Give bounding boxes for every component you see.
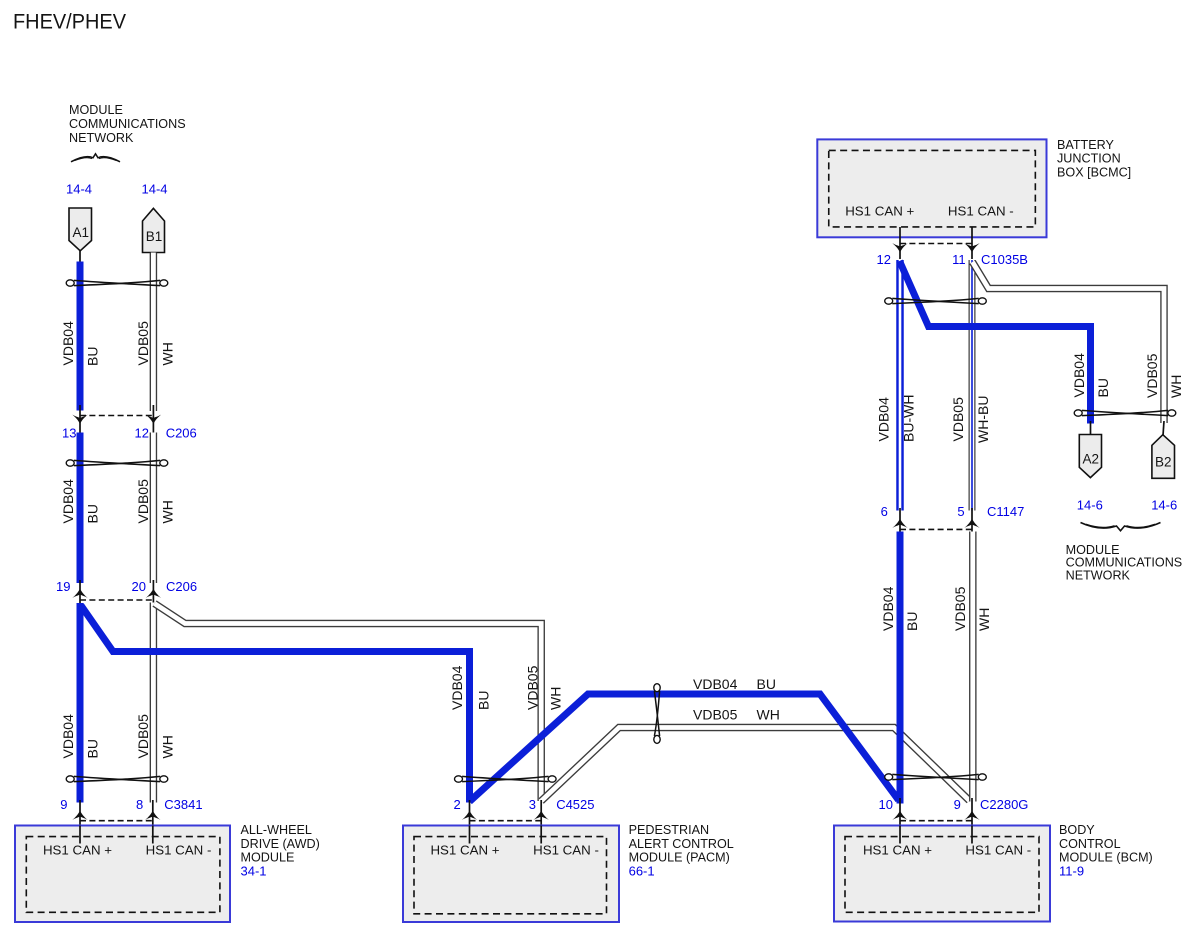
svg-text:JUNCTION: JUNCTION xyxy=(1057,152,1121,166)
svg-text:14-4: 14-4 xyxy=(142,182,168,197)
svg-text:WH: WH xyxy=(548,687,564,710)
svg-text:FHEV/PHEV: FHEV/PHEV xyxy=(13,11,126,34)
wire stub above B2 xyxy=(1163,421,1164,436)
svg-text:VDB05: VDB05 xyxy=(952,586,968,631)
connector C206 (pins 13/12) xyxy=(62,405,197,441)
svg-text:WH: WH xyxy=(159,342,175,365)
connector C206 (pins 19/20) xyxy=(56,579,197,604)
wire VDB05 WH branch (pin 11 to B2) xyxy=(973,262,1165,423)
svg-text:HS1 CAN -: HS1 CAN - xyxy=(948,203,1014,218)
svg-text:B2: B2 xyxy=(1155,455,1172,470)
svg-text:BU: BU xyxy=(85,739,101,758)
svg-text:VDB05: VDB05 xyxy=(1144,353,1160,398)
connector C1035B (pins 12/11) xyxy=(877,227,1028,267)
svg-text:PEDESTRIAN: PEDESTRIAN xyxy=(629,823,709,837)
wire VDB04 BU (C1147 to BCM pin 10) xyxy=(897,532,904,804)
svg-text:VDB04: VDB04 xyxy=(876,397,892,442)
svg-text:9: 9 xyxy=(954,797,961,812)
svg-text:DRIVE (AWD): DRIVE (AWD) xyxy=(241,837,320,851)
svg-text:VDB04: VDB04 xyxy=(693,676,738,692)
svg-text:B1: B1 xyxy=(146,229,163,244)
connector C4525 (pins 2/3) xyxy=(453,797,594,844)
connector C2280G (pins 10/9) xyxy=(879,797,1029,844)
svg-text:WH: WH xyxy=(159,735,175,758)
svg-text:VDB04: VDB04 xyxy=(60,479,76,524)
svg-text:19: 19 xyxy=(56,579,70,594)
svg-text:12: 12 xyxy=(877,252,891,267)
svg-text:VDB05: VDB05 xyxy=(135,714,151,759)
svg-text:NETWORK: NETWORK xyxy=(1066,568,1131,582)
svg-text:14-4: 14-4 xyxy=(66,182,92,197)
svg-text:COMMUNICATIONS: COMMUNICATIONS xyxy=(1066,555,1183,569)
twisted pair symbol (below C1035B) xyxy=(885,298,987,304)
module BJB (BCMC) box xyxy=(817,139,1046,237)
svg-text:3: 3 xyxy=(529,797,536,812)
wire VDB04 BU (C206 to AWD) xyxy=(77,603,84,803)
wire VDB05 WH (C1147 to BCM pin 9) xyxy=(969,532,977,802)
brace (top left) xyxy=(71,154,120,162)
connector A1 xyxy=(69,208,92,251)
wire VDB05 WH (B1 to C206) xyxy=(150,253,158,412)
svg-text:VDB05: VDB05 xyxy=(693,707,738,723)
svg-text:C1147: C1147 xyxy=(987,504,1024,519)
twisted pair symbol (mid left) xyxy=(66,460,168,466)
svg-text:BU: BU xyxy=(1095,378,1111,397)
brace (bottom right) xyxy=(1081,523,1161,531)
horizontal run: wire VDB04 BU (PACM pin 2 to BCM pin 10) xyxy=(470,694,899,802)
module PACM box xyxy=(403,826,619,923)
connector C3841 (pins 9/8) xyxy=(60,797,202,844)
wire VDB04 BU (A1 to C206) xyxy=(77,262,84,411)
svg-text:14-6: 14-6 xyxy=(1151,498,1177,513)
connector C1147 (pins 6/5) xyxy=(881,504,1025,532)
svg-text:BATTERY: BATTERY xyxy=(1057,138,1115,152)
svg-text:HS1 CAN -: HS1 CAN - xyxy=(533,843,599,858)
svg-text:11-9: 11-9 xyxy=(1059,863,1084,878)
svg-text:VDB05: VDB05 xyxy=(135,479,151,524)
connector B1 xyxy=(143,208,165,252)
svg-text:BODY: BODY xyxy=(1059,823,1095,837)
svg-text:VDB05: VDB05 xyxy=(950,397,966,442)
wire VDB04 BU-WH (pin 12 to C1147 pin 6) xyxy=(896,260,904,511)
svg-text:VDB05: VDB05 xyxy=(135,321,151,366)
svg-text:BOX [BCMC]: BOX [BCMC] xyxy=(1057,165,1131,179)
wire VDB05 WH (C206 to AWD) xyxy=(150,603,158,803)
twisted pair symbol (mid run, vertical) xyxy=(654,684,660,744)
svg-text:WH: WH xyxy=(976,608,992,631)
svg-text:BU: BU xyxy=(85,347,101,366)
svg-text:BU: BU xyxy=(757,676,776,692)
svg-text:NETWORK: NETWORK xyxy=(69,131,134,145)
svg-text:6: 6 xyxy=(881,504,888,519)
svg-text:HS1 CAN +: HS1 CAN + xyxy=(845,203,914,218)
svg-text:HS1 CAN +: HS1 CAN + xyxy=(43,843,112,858)
twisted pair symbol (bottom left) xyxy=(66,776,168,782)
svg-text:HS1 CAN +: HS1 CAN + xyxy=(430,843,499,858)
wire VDB04 BU (C206 to C206) xyxy=(77,433,84,584)
svg-text:10: 10 xyxy=(879,797,893,812)
svg-text:C2280G: C2280G xyxy=(980,797,1028,812)
svg-text:20: 20 xyxy=(132,579,146,594)
svg-text:WH: WH xyxy=(1168,375,1184,398)
svg-text:C1035B: C1035B xyxy=(981,252,1028,267)
svg-text:BU: BU xyxy=(476,691,492,710)
svg-text:VDB04: VDB04 xyxy=(60,321,76,366)
svg-text:5: 5 xyxy=(957,504,964,519)
svg-text:C206: C206 xyxy=(166,426,197,441)
svg-text:A2: A2 xyxy=(1083,452,1100,467)
wire stub above A2 xyxy=(1090,421,1092,435)
svg-text:2: 2 xyxy=(453,797,460,812)
svg-text:BU: BU xyxy=(85,504,101,523)
wire stub below A1 xyxy=(79,251,81,263)
connector A2 xyxy=(1079,435,1101,478)
svg-text:BU-WH: BU-WH xyxy=(901,395,917,442)
horizontal run: wire VDB05 WH (PACM pin 3 to BCM pin 9) xyxy=(541,728,969,802)
wire VDB05 WH (C206 to C206) xyxy=(150,433,158,584)
wire VDB04 BU branch (pin 19 to PACM pin 2) xyxy=(81,606,470,803)
svg-text:VDB04: VDB04 xyxy=(449,665,465,710)
svg-text:34-1: 34-1 xyxy=(241,863,267,878)
svg-text:MODULE: MODULE xyxy=(69,103,123,117)
svg-text:VDB04: VDB04 xyxy=(880,586,896,631)
svg-text:VDB04: VDB04 xyxy=(60,714,76,759)
svg-text:12: 12 xyxy=(135,426,149,441)
svg-text:BU: BU xyxy=(904,612,920,631)
svg-text:C3841: C3841 xyxy=(164,797,202,812)
svg-text:COMMUNICATIONS: COMMUNICATIONS xyxy=(69,117,186,131)
svg-text:66-1: 66-1 xyxy=(629,863,655,878)
twisted pair symbol (top left) xyxy=(66,280,168,286)
module AWD box xyxy=(15,826,230,923)
svg-text:VDB04: VDB04 xyxy=(1071,353,1087,398)
twisted pair symbol (PACM) xyxy=(455,776,557,782)
svg-text:C206: C206 xyxy=(166,579,197,594)
svg-text:8: 8 xyxy=(136,797,143,812)
svg-text:ALL-WHEEL: ALL-WHEEL xyxy=(241,823,312,837)
twisted pair symbol (above BCM) xyxy=(885,774,987,780)
svg-text:9: 9 xyxy=(60,797,67,812)
svg-text:C4525: C4525 xyxy=(556,797,594,812)
svg-text:11: 11 xyxy=(952,252,966,267)
svg-text:ALERT CONTROL: ALERT CONTROL xyxy=(629,837,734,851)
wire VDB05 WH branch (pin 20 to PACM pin 3) xyxy=(155,604,542,802)
module BCM box xyxy=(834,826,1050,922)
svg-text:HS1 CAN +: HS1 CAN + xyxy=(863,843,932,858)
svg-text:WH: WH xyxy=(159,500,175,523)
svg-text:WH-BU: WH-BU xyxy=(975,396,991,443)
svg-text:VDB05: VDB05 xyxy=(525,665,541,710)
svg-text:14-6: 14-6 xyxy=(1077,498,1103,513)
svg-text:HS1 CAN -: HS1 CAN - xyxy=(146,843,212,858)
wire VDB05 WH-BU (pin 11 to C1147 pin 5) xyxy=(969,260,976,511)
svg-text:HS1 CAN -: HS1 CAN - xyxy=(965,843,1031,858)
svg-text:WH: WH xyxy=(757,707,780,723)
wire VDB04 BU branch (pin 12 to A2) xyxy=(900,261,1091,424)
svg-text:A1: A1 xyxy=(73,225,90,240)
svg-text:13: 13 xyxy=(62,426,76,441)
twisted pair symbol (above A2/B2) xyxy=(1074,410,1176,416)
svg-text:CONTROL: CONTROL xyxy=(1059,837,1121,851)
connector B2 xyxy=(1152,435,1175,479)
